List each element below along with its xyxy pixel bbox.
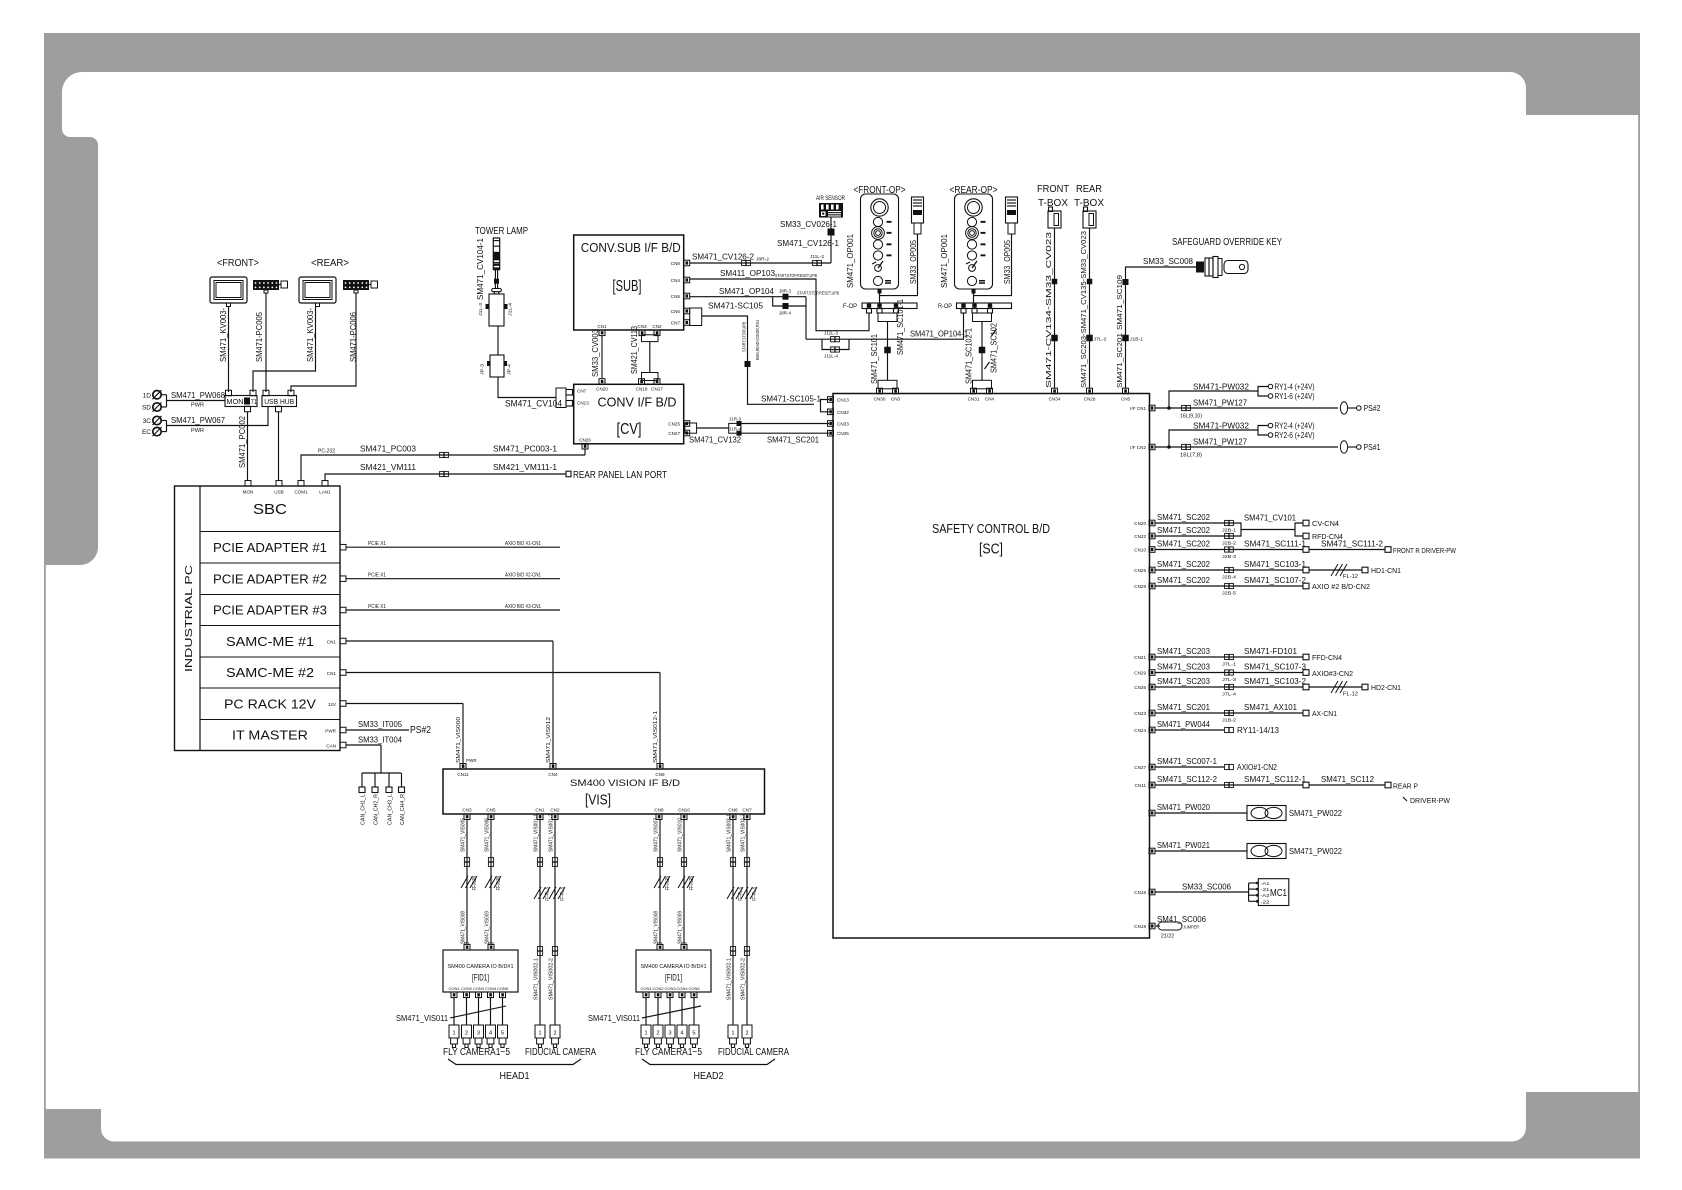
svg-text:SM471_VIS005: SM471_VIS005 (461, 818, 467, 852)
svg-text:SM471_SC103-2: SM471_SC103-2 (1244, 676, 1306, 686)
svg-text:-A1: -A1 (1261, 881, 1271, 886)
svg-text:FRONT: FRONT (1037, 184, 1069, 195)
svg-text:FRONT R DRIVER-PW: FRONT R DRIVER-PW (1393, 546, 1457, 555)
svg-text:SM33_IT005: SM33_IT005 (358, 720, 403, 729)
svg-text:SAMC-ME #2: SAMC-ME #2 (226, 665, 314, 680)
svg-text:SM471_SC107-3: SM471_SC107-3 (1244, 662, 1306, 672)
svg-text:SM471_SC202: SM471_SC202 (1157, 575, 1210, 585)
svg-text:CN28: CN28 (1134, 584, 1146, 589)
svg-text:MON: MON (243, 490, 254, 495)
svg-text:J7L-1: J7L-1 (1222, 662, 1237, 667)
svg-text:CN28: CN28 (1084, 397, 1096, 402)
svg-text:SM471_OP104: SM471_OP104 (719, 286, 774, 296)
svg-text:SM411_OP103: SM411_OP103 (720, 268, 775, 278)
svg-text:J7L-3: J7L-3 (1222, 677, 1237, 682)
svg-text:FL-12: FL-12 (1343, 574, 1358, 580)
svg-text:CN3: CN3 (462, 808, 472, 813)
svg-text:SM471_KV003-: SM471_KV003- (219, 308, 228, 362)
svg-text:CN26: CN26 (1134, 685, 1146, 690)
svg-text:SM471_PC003-1: SM471_PC003-1 (493, 444, 557, 454)
svg-text:CONV.SUB I/F B/D: CONV.SUB I/F B/D (581, 240, 681, 255)
svg-text:SM400 CAMERA IO B/D#1: SM400 CAMERA IO B/D#1 (448, 964, 514, 970)
svg-text:SM471_PW021: SM471_PW021 (1157, 840, 1210, 850)
svg-text:PS#2: PS#2 (410, 724, 431, 736)
svg-text:SM33_CV026-1: SM33_CV026-1 (780, 219, 837, 229)
svg-text:LAN1: LAN1 (319, 490, 331, 495)
svg-text:AIR SENSOR: AIR SENSOR (816, 195, 845, 202)
svg-text:CN35: CN35 (837, 431, 849, 436)
svg-text:SM471_OP001: SM471_OP001 (845, 234, 855, 288)
svg-text:CN25: CN25 (1134, 568, 1146, 573)
svg-text:J1L-3: J1L-3 (478, 302, 483, 316)
svg-text:CN33: CN33 (837, 422, 849, 427)
svg-text:CON2: CON2 (461, 986, 473, 991)
svg-text:SM33_CV003: SM33_CV003 (591, 328, 600, 377)
svg-text:RY1-6 (+24V): RY1-6 (+24V) (1275, 391, 1315, 401)
svg-text:COM1: COM1 (294, 490, 308, 495)
svg-text:SM471_CV104-1: SM471_CV104-1 (476, 237, 485, 300)
svg-text:CN6: CN6 (728, 808, 738, 813)
svg-text:T-BOX: T-BOX (1074, 198, 1104, 209)
svg-text:-22: -22 (1261, 899, 1271, 904)
svg-text:R-OP: R-OP (938, 304, 952, 310)
svg-text:SM471_SC101: SM471_SC101 (870, 333, 879, 384)
svg-text:PC RACK 12V: PC RACK 12V (224, 696, 316, 711)
svg-text:CN1: CN1 (597, 324, 607, 329)
svg-text:I/F CN2: I/F CN2 (1130, 445, 1146, 450)
svg-text:REAR: REAR (1076, 184, 1102, 195)
svg-text:CN10: CN10 (1134, 548, 1146, 553)
svg-text:SM471_VIS006: SM471_VIS006 (485, 818, 491, 852)
svg-text:PCIE ADAPTER #1: PCIE ADAPTER #1 (213, 540, 327, 555)
svg-text:CN31: CN31 (968, 397, 980, 402)
svg-text:SM471_PW127: SM471_PW127 (1193, 398, 1247, 408)
svg-text:SM471_SC203: SM471_SC203 (1157, 662, 1210, 672)
svg-text:PCIE X1: PCIE X1 (368, 604, 386, 610)
svg-text:PCIE ADAPTER #2: PCIE ADAPTER #2 (213, 571, 327, 586)
svg-text:2: 2 (656, 1031, 659, 1037)
svg-text:SM471_VIS011: SM471_VIS011 (396, 1013, 448, 1023)
svg-text:SM421_VM111: SM421_VM111 (360, 462, 416, 472)
svg-text:CN26: CN26 (579, 438, 591, 443)
svg-text:SM471_OP104-1: SM471_OP104-1 (910, 329, 968, 339)
svg-text:START,STOP,RESET,UPB: START,STOP,RESET,UPB (797, 291, 839, 296)
svg-text:SM471-CV134-SM33_CV023: SM471-CV134-SM33_CV023 (1044, 232, 1053, 388)
svg-text:START,STOP,UPB: START,STOP,UPB (742, 322, 747, 352)
svg-text:[FID1]: [FID1] (665, 973, 682, 984)
svg-text:SM471_VIS012: SM471_VIS012 (546, 717, 552, 763)
svg-text:2: 2 (553, 1031, 556, 1037)
svg-text:CN27: CN27 (668, 431, 680, 436)
svg-text:CON3: CON3 (473, 986, 485, 991)
svg-text:CON1: CON1 (448, 986, 460, 991)
svg-text:SM471_VIS010: SM471_VIS010 (678, 818, 684, 852)
svg-text:71: 71 (251, 399, 257, 406)
svg-text:FF-FL-5: FF-FL-5 (560, 887, 566, 901)
svg-text:SM471-PC006: SM471-PC006 (349, 311, 358, 362)
svg-text:CN2: CN2 (550, 808, 560, 813)
svg-text:J1R-3: J1R-3 (729, 416, 742, 421)
svg-text:FF-FL-5: FF-FL-5 (545, 887, 551, 901)
svg-text:CN8: CN8 (654, 808, 664, 813)
svg-text:CN7: CN7 (577, 389, 587, 394)
svg-text:J1R-4: J1R-4 (729, 427, 742, 432)
svg-text:SM471_SC102: SM471_SC102 (990, 322, 999, 373)
svg-text:SM471_VIS003-1: SM471_VIS003-1 (727, 814, 733, 852)
svg-text:CAN: CAN (326, 744, 336, 749)
svg-text:SM471_VIS008: SM471_VIS008 (461, 911, 467, 944)
svg-text:SM471-PW032: SM471-PW032 (1193, 382, 1249, 392)
svg-text:SM471_VIS002-1: SM471_VIS002-1 (534, 958, 540, 1000)
svg-text:PCIE X1: PCIE X1 (368, 573, 386, 579)
svg-text:1: 1 (731, 1031, 734, 1037)
svg-text:J2B-2: J2B-2 (1222, 541, 1237, 546)
svg-text:[CV]: [CV] (617, 421, 642, 438)
svg-text:SM471_SC111-1: SM471_SC111-1 (1244, 539, 1306, 549)
svg-text:<REAR>: <REAR> (311, 258, 349, 269)
svg-text:PCIE ADAPTER #3: PCIE ADAPTER #3 (213, 603, 327, 618)
svg-text:AXIO B/D #1-CN1: AXIO B/D #1-CN1 (505, 541, 541, 547)
svg-text:SM33_OP005: SM33_OP005 (1002, 240, 1012, 284)
svg-text:HD1-CN1: HD1-CN1 (1371, 568, 1401, 575)
svg-text:SM33_IT004: SM33_IT004 (358, 736, 403, 745)
svg-text:3: 3 (668, 1031, 671, 1037)
svg-text:CN27: CN27 (1134, 765, 1146, 770)
svg-text:SAMC-ME #1: SAMC-ME #1 (226, 634, 314, 649)
svg-text:2: 2 (745, 1031, 748, 1037)
svg-text:J11L-2: J11L-2 (810, 254, 825, 259)
svg-text:CN13: CN13 (577, 401, 589, 406)
svg-text:J1L-4: J1L-4 (508, 302, 513, 316)
svg-text:AXIO#1-CN2: AXIO#1-CN2 (1237, 763, 1277, 772)
svg-text:RY11-14/13: RY11-14/13 (1237, 725, 1279, 735)
svg-text:FIDUCIAL CAMERA: FIDUCIAL CAMERA (718, 1047, 789, 1058)
svg-text:CON5: CON5 (688, 986, 700, 991)
svg-text:SM471_SC103-1: SM471_SC103-1 (1244, 559, 1306, 569)
svg-text:SM471_VIS002-1: SM471_VIS002-1 (727, 958, 733, 1000)
svg-text:SM471_SC203: SM471_SC203 (1157, 676, 1210, 686)
svg-text:SM471_VIS009: SM471_VIS009 (678, 911, 684, 944)
svg-text:CV-CN4: CV-CN4 (1312, 521, 1339, 528)
svg-text:SM471_SC201: SM471_SC201 (1115, 333, 1124, 388)
svg-text:CAN_CH2_R: CAN_CH2_R (374, 794, 380, 825)
svg-text:SM471-SC105: SM471-SC105 (708, 301, 763, 311)
svg-text:-A2: -A2 (1261, 893, 1271, 898)
svg-text:SM471_VIS002-2: SM471_VIS002-2 (549, 958, 555, 1000)
svg-text:5: 5 (692, 1031, 695, 1037)
svg-text:CN5: CN5 (1121, 397, 1131, 402)
svg-text:CN17: CN17 (651, 387, 663, 392)
svg-text:AXIO #2 B/D-CN2: AXIO #2 B/D-CN2 (1312, 584, 1370, 591)
svg-text:1: 1 (538, 1031, 541, 1037)
svg-text:CN3: CN3 (891, 397, 901, 402)
svg-text:FLY CAMERA1~5: FLY CAMERA1~5 (635, 1047, 702, 1058)
svg-text:CN18: CN18 (636, 387, 648, 392)
svg-text:IT MASTER: IT MASTER (232, 728, 308, 743)
svg-text:FL-12: FL-12 (1343, 692, 1358, 698)
svg-text:CN11: CN11 (457, 772, 469, 777)
svg-text:SM471_CV104: SM471_CV104 (505, 399, 562, 409)
svg-text:CN20: CN20 (1134, 521, 1146, 526)
svg-text:HEAD1: HEAD1 (500, 1071, 530, 1082)
svg-text:PWR: PWR (325, 729, 336, 734)
svg-text:3C: 3C (143, 418, 152, 425)
svg-text:CON3: CON3 (664, 986, 676, 991)
svg-text:SM33_OP005: SM33_OP005 (908, 240, 918, 284)
svg-text:SM471_VIS001-2: SM471_VIS001-2 (549, 814, 555, 852)
svg-text:CN34: CN34 (1049, 397, 1061, 402)
svg-text:SM471_SC102-1: SM471_SC102-1 (965, 328, 974, 384)
svg-text:T-BOX: T-BOX (1038, 198, 1068, 209)
svg-text:MC1: MC1 (1270, 888, 1287, 899)
svg-text:CN5: CN5 (486, 808, 496, 813)
svg-text:SD: SD (142, 405, 151, 412)
svg-text:-21: -21 (1261, 887, 1271, 892)
svg-text:CN24: CN24 (1134, 728, 1146, 733)
svg-text:16L(9,10): 16L(9,10) (1180, 414, 1202, 420)
svg-text:CON4: CON4 (485, 986, 497, 991)
svg-text:SM471_SC101-1: SM471_SC101-1 (896, 299, 905, 355)
svg-text:CN4: CN4 (671, 278, 681, 283)
svg-text:CN7: CN7 (742, 808, 752, 813)
svg-text:PWR: PWR (466, 758, 477, 763)
svg-text:CN29: CN29 (1134, 671, 1146, 676)
svg-text:SM421_VM111-1: SM421_VM111-1 (493, 462, 557, 472)
svg-text:FF-FL2N: FF-FL2N (472, 876, 478, 890)
svg-text:CN2: CN2 (652, 324, 662, 329)
svg-text:[SC]: [SC] (979, 541, 1003, 558)
svg-text:RY2-6 (+24V): RY2-6 (+24V) (1275, 430, 1315, 440)
svg-text:RY2-4 (+24V): RY2-4 (+24V) (1275, 420, 1315, 430)
svg-text:SM471_SC202: SM471_SC202 (1157, 539, 1210, 549)
svg-text:SM471-PC005: SM471-PC005 (255, 311, 264, 362)
svg-text:FF-FL2N: FF-FL2N (496, 876, 502, 890)
svg-text:SM471_VIS012-1: SM471_VIS012-1 (653, 711, 659, 763)
svg-text:CON5: CON5 (497, 986, 509, 991)
svg-text:SM471_PW022: SM471_PW022 (1289, 808, 1342, 818)
svg-text:SAFEGUARD OVERRIDE KEY: SAFEGUARD OVERRIDE KEY (1172, 237, 1282, 248)
svg-text:SM400 CAMERA IO B/D#1: SM400 CAMERA IO B/D#1 (641, 964, 707, 970)
svg-text:CN13: CN13 (837, 398, 849, 403)
svg-text:CN18: CN18 (1134, 890, 1146, 895)
svg-text:PWR: PWR (191, 428, 204, 434)
svg-text:16L(7,8): 16L(7,8) (1180, 453, 1202, 459)
svg-text:CN6: CN6 (671, 309, 681, 314)
svg-text:J8R-4: J8R-4 (779, 311, 792, 316)
svg-text:J8R-3: J8R-3 (779, 289, 792, 294)
svg-text:SM471_PW022: SM471_PW022 (1289, 846, 1342, 856)
svg-text:SM471_PW020: SM471_PW020 (1157, 802, 1210, 812)
svg-text:PWR: PWR (191, 403, 204, 409)
svg-text:FIDUCIAL CAMERA: FIDUCIAL CAMERA (525, 1047, 596, 1058)
svg-text:CN30: CN30 (874, 397, 886, 402)
svg-text:CN23: CN23 (1134, 711, 1146, 716)
svg-text:CN32: CN32 (837, 410, 849, 415)
svg-text:SAFETY CONTROL B/D: SAFETY CONTROL B/D (932, 522, 1050, 536)
svg-text:SM471_SC112: SM471_SC112 (1321, 774, 1374, 784)
svg-text:CN5: CN5 (671, 294, 681, 299)
svg-text:JP-4: JP-4 (507, 363, 512, 375)
svg-text:SM471_VIS009: SM471_VIS009 (485, 911, 491, 944)
svg-text:SM471_VIS008: SM471_VIS008 (654, 911, 660, 944)
svg-text:CAN_CH1_L: CAN_CH1_L (361, 794, 367, 825)
svg-text:CN21: CN21 (1134, 655, 1146, 660)
svg-text:FFD-CN4: FFD-CN4 (1312, 655, 1342, 662)
svg-text:FF-FL2N: FF-FL2N (689, 876, 695, 890)
svg-text:REAR P: REAR P (1393, 782, 1418, 791)
svg-text:J8R-2: J8R-2 (756, 257, 770, 262)
svg-text:CN8: CN8 (671, 261, 681, 266)
svg-text:SM471_SC203: SM471_SC203 (1157, 646, 1210, 656)
svg-text:SM471_SC203-SM471_CV135-SM33_C: SM471_SC203-SM471_CV135-SM33_CV023 (1079, 231, 1088, 388)
svg-text:SM471_SC007-1: SM471_SC007-1 (1157, 756, 1217, 766)
svg-text:SM471_KV003-: SM471_KV003- (306, 308, 315, 362)
svg-text:SM400 VISION IF B/D: SM400 VISION IF B/D (570, 778, 681, 788)
svg-text:CN1: CN1 (327, 640, 337, 645)
svg-text:USB: USB (274, 490, 283, 495)
svg-text:SM471_PW127: SM471_PW127 (1193, 437, 1247, 447)
svg-text:J11L-4: J11L-4 (824, 354, 839, 359)
svg-text:CN4: CN4 (985, 397, 995, 402)
svg-text:J1B-1: J1B-1 (1130, 337, 1144, 342)
svg-text:SM471_VIS007: SM471_VIS007 (654, 818, 660, 852)
svg-text:SM471_SC202: SM471_SC202 (1157, 525, 1210, 535)
svg-text:J2B-3: J2B-3 (1222, 554, 1237, 559)
svg-text:CN4: CN4 (548, 772, 558, 777)
svg-text:SM471_PW067: SM471_PW067 (171, 415, 225, 425)
svg-text:CONV I/F B/D: CONV I/F B/D (598, 395, 677, 410)
svg-text:SM471_CV126-1: SM471_CV126-1 (777, 238, 839, 248)
svg-text:FF-FL2N: FF-FL2N (665, 876, 671, 890)
svg-text:RY1-4 (+24V): RY1-4 (+24V) (1275, 381, 1315, 391)
svg-text:PS#2: PS#2 (1364, 403, 1381, 413)
svg-text:SM471_OP001: SM471_OP001 (939, 234, 949, 288)
svg-text:1: 1 (644, 1031, 647, 1037)
svg-text:PS#1: PS#1 (1364, 442, 1381, 452)
svg-text:1: 1 (452, 1031, 455, 1037)
svg-text:[FID1]: [FID1] (472, 973, 489, 984)
svg-text:FLY CAMERA1~5: FLY CAMERA1~5 (443, 1047, 510, 1058)
svg-text:J2B-1: J2B-1 (1222, 528, 1237, 533)
svg-text:SM471_VIS000: SM471_VIS000 (456, 717, 462, 763)
svg-text:5: 5 (501, 1031, 504, 1037)
svg-text:J11L-3: J11L-3 (824, 331, 839, 336)
svg-text:CON2: CON2 (652, 986, 664, 991)
svg-text:SM471-PW032: SM471-PW032 (1193, 421, 1249, 431)
svg-text:[SUB]: [SUB] (613, 278, 642, 295)
svg-text:21/22: 21/22 (1161, 934, 1174, 940)
svg-text:SM471_PC003: SM471_PC003 (360, 444, 416, 454)
svg-text:CN9: CN9 (655, 772, 665, 777)
svg-text:JP-3: JP-3 (480, 363, 485, 375)
svg-text:SM33_SC008: SM33_SC008 (1143, 256, 1193, 266)
svg-text:CN22: CN22 (1134, 534, 1146, 539)
svg-text:J7L-2: J7L-2 (1094, 337, 1108, 342)
svg-text:SM33_SC006: SM33_SC006 (1182, 882, 1231, 892)
svg-text:SM471_VIS002-2: SM471_VIS002-2 (741, 958, 747, 1000)
svg-text:SM471_AX101: SM471_AX101 (1244, 702, 1297, 712)
svg-text:CN10: CN10 (678, 808, 690, 813)
svg-text:CN1: CN1 (327, 671, 337, 676)
svg-text:USB HUB: USB HUB (264, 397, 294, 406)
svg-text:SM471_PC002: SM471_PC002 (238, 415, 247, 468)
svg-text:EMG,READY,DOOR,PSU: EMG,READY,DOOR,PSU (755, 320, 760, 360)
svg-text:AXIO B/D #3-CN1: AXIO B/D #3-CN1 (505, 604, 541, 610)
svg-text:<FRONT>: <FRONT> (217, 258, 259, 269)
svg-text:SBC: SBC (253, 501, 287, 518)
svg-text:PCIE X1: PCIE X1 (368, 541, 386, 547)
svg-text:1D: 1D (143, 392, 152, 399)
svg-text:HEAD2: HEAD2 (694, 1071, 724, 1082)
svg-text:CN11: CN11 (1135, 783, 1147, 788)
svg-text:HD2-CN1: HD2-CN1 (1371, 685, 1401, 692)
svg-text:START,STOP,RESET,UPB: START,STOP,RESET,UPB (775, 273, 817, 278)
svg-text:TOWER LAMP: TOWER LAMP (475, 226, 528, 237)
svg-text:CN20: CN20 (596, 387, 608, 392)
svg-text:SM471_SC112-1: SM471_SC112-1 (1244, 774, 1306, 784)
svg-text:SM471_SC201: SM471_SC201 (767, 435, 819, 445)
svg-text:2: 2 (465, 1031, 468, 1037)
svg-text:SM471_VIS003-2: SM471_VIS003-2 (741, 814, 747, 852)
svg-text:CON4: CON4 (676, 986, 688, 991)
svg-text:SM471_SC202: SM471_SC202 (1157, 512, 1210, 522)
svg-text:SM471_CV132: SM471_CV132 (689, 435, 741, 445)
svg-text:SM471_PW044: SM471_PW044 (1157, 719, 1210, 729)
svg-text:JUMPER: JUMPER (1183, 925, 1200, 930)
svg-text:CN19: CN19 (1134, 924, 1146, 929)
svg-text:SM471_VIS001-1: SM471_VIS001-1 (534, 814, 540, 852)
svg-text:SM471_SC202: SM471_SC202 (1157, 559, 1210, 569)
svg-text:AXIO B/D #2-CN1: AXIO B/D #2-CN1 (505, 573, 541, 579)
svg-text:J1B-2: J1B-2 (1222, 718, 1237, 723)
svg-text:AXIO#3-CN2: AXIO#3-CN2 (1312, 671, 1353, 678)
svg-text:CAN_CH3_L: CAN_CH3_L (388, 794, 394, 825)
svg-text:J2B-5: J2B-5 (1222, 591, 1237, 596)
svg-text:SM471_SC201: SM471_SC201 (1157, 702, 1210, 712)
svg-text:J2B-4: J2B-4 (1222, 575, 1237, 580)
svg-text:INDUSTRIAL PC: INDUSTRIAL PC (184, 565, 195, 672)
svg-text:CN25: CN25 (668, 422, 680, 427)
svg-text:3: 3 (477, 1031, 480, 1037)
svg-text:SM421_CV113: SM421_CV113 (630, 326, 639, 374)
svg-text:F-OP: F-OP (843, 304, 857, 310)
svg-text:SM471_PW068: SM471_PW068 (171, 390, 225, 400)
svg-text:SM471_SC112-2: SM471_SC112-2 (1157, 774, 1217, 784)
svg-text:SM471_VIS011: SM471_VIS011 (588, 1013, 640, 1023)
svg-text:MON: MON (227, 397, 244, 406)
svg-text:EC: EC (142, 429, 151, 436)
svg-text:CAN_CH4_R: CAN_CH4_R (400, 794, 406, 825)
svg-text:SM471_CV101: SM471_CV101 (1244, 513, 1296, 523)
svg-text:PC-232: PC-232 (318, 449, 335, 455)
svg-text:CN1: CN1 (535, 808, 545, 813)
svg-text:SM471-FD101: SM471-FD101 (1244, 646, 1297, 656)
svg-text:SM471-SC105-1: SM471-SC105-1 (761, 394, 821, 404)
svg-text:J7L-4: J7L-4 (1222, 692, 1237, 697)
svg-text:SM471_CV126-2: SM471_CV126-2 (692, 252, 754, 262)
svg-text:FF-FL-5: FF-FL-5 (752, 887, 758, 901)
svg-text:SM471_SC109: SM471_SC109 (1115, 275, 1124, 330)
svg-text:12V: 12V (328, 702, 337, 707)
svg-text:I/F CN1: I/F CN1 (1130, 406, 1146, 411)
svg-text:CON1: CON1 (640, 986, 652, 991)
svg-text:CN7: CN7 (671, 321, 681, 326)
svg-text:REAR PANEL LAN PORT: REAR PANEL LAN PORT (573, 470, 667, 481)
svg-text:SM471_SC107-2: SM471_SC107-2 (1244, 575, 1306, 585)
svg-text:SM471_SC111-2: SM471_SC111-2 (1321, 539, 1383, 549)
svg-text:AX-CN1: AX-CN1 (1312, 711, 1337, 718)
svg-text:DRIVER-PW: DRIVER-PW (1410, 796, 1451, 805)
